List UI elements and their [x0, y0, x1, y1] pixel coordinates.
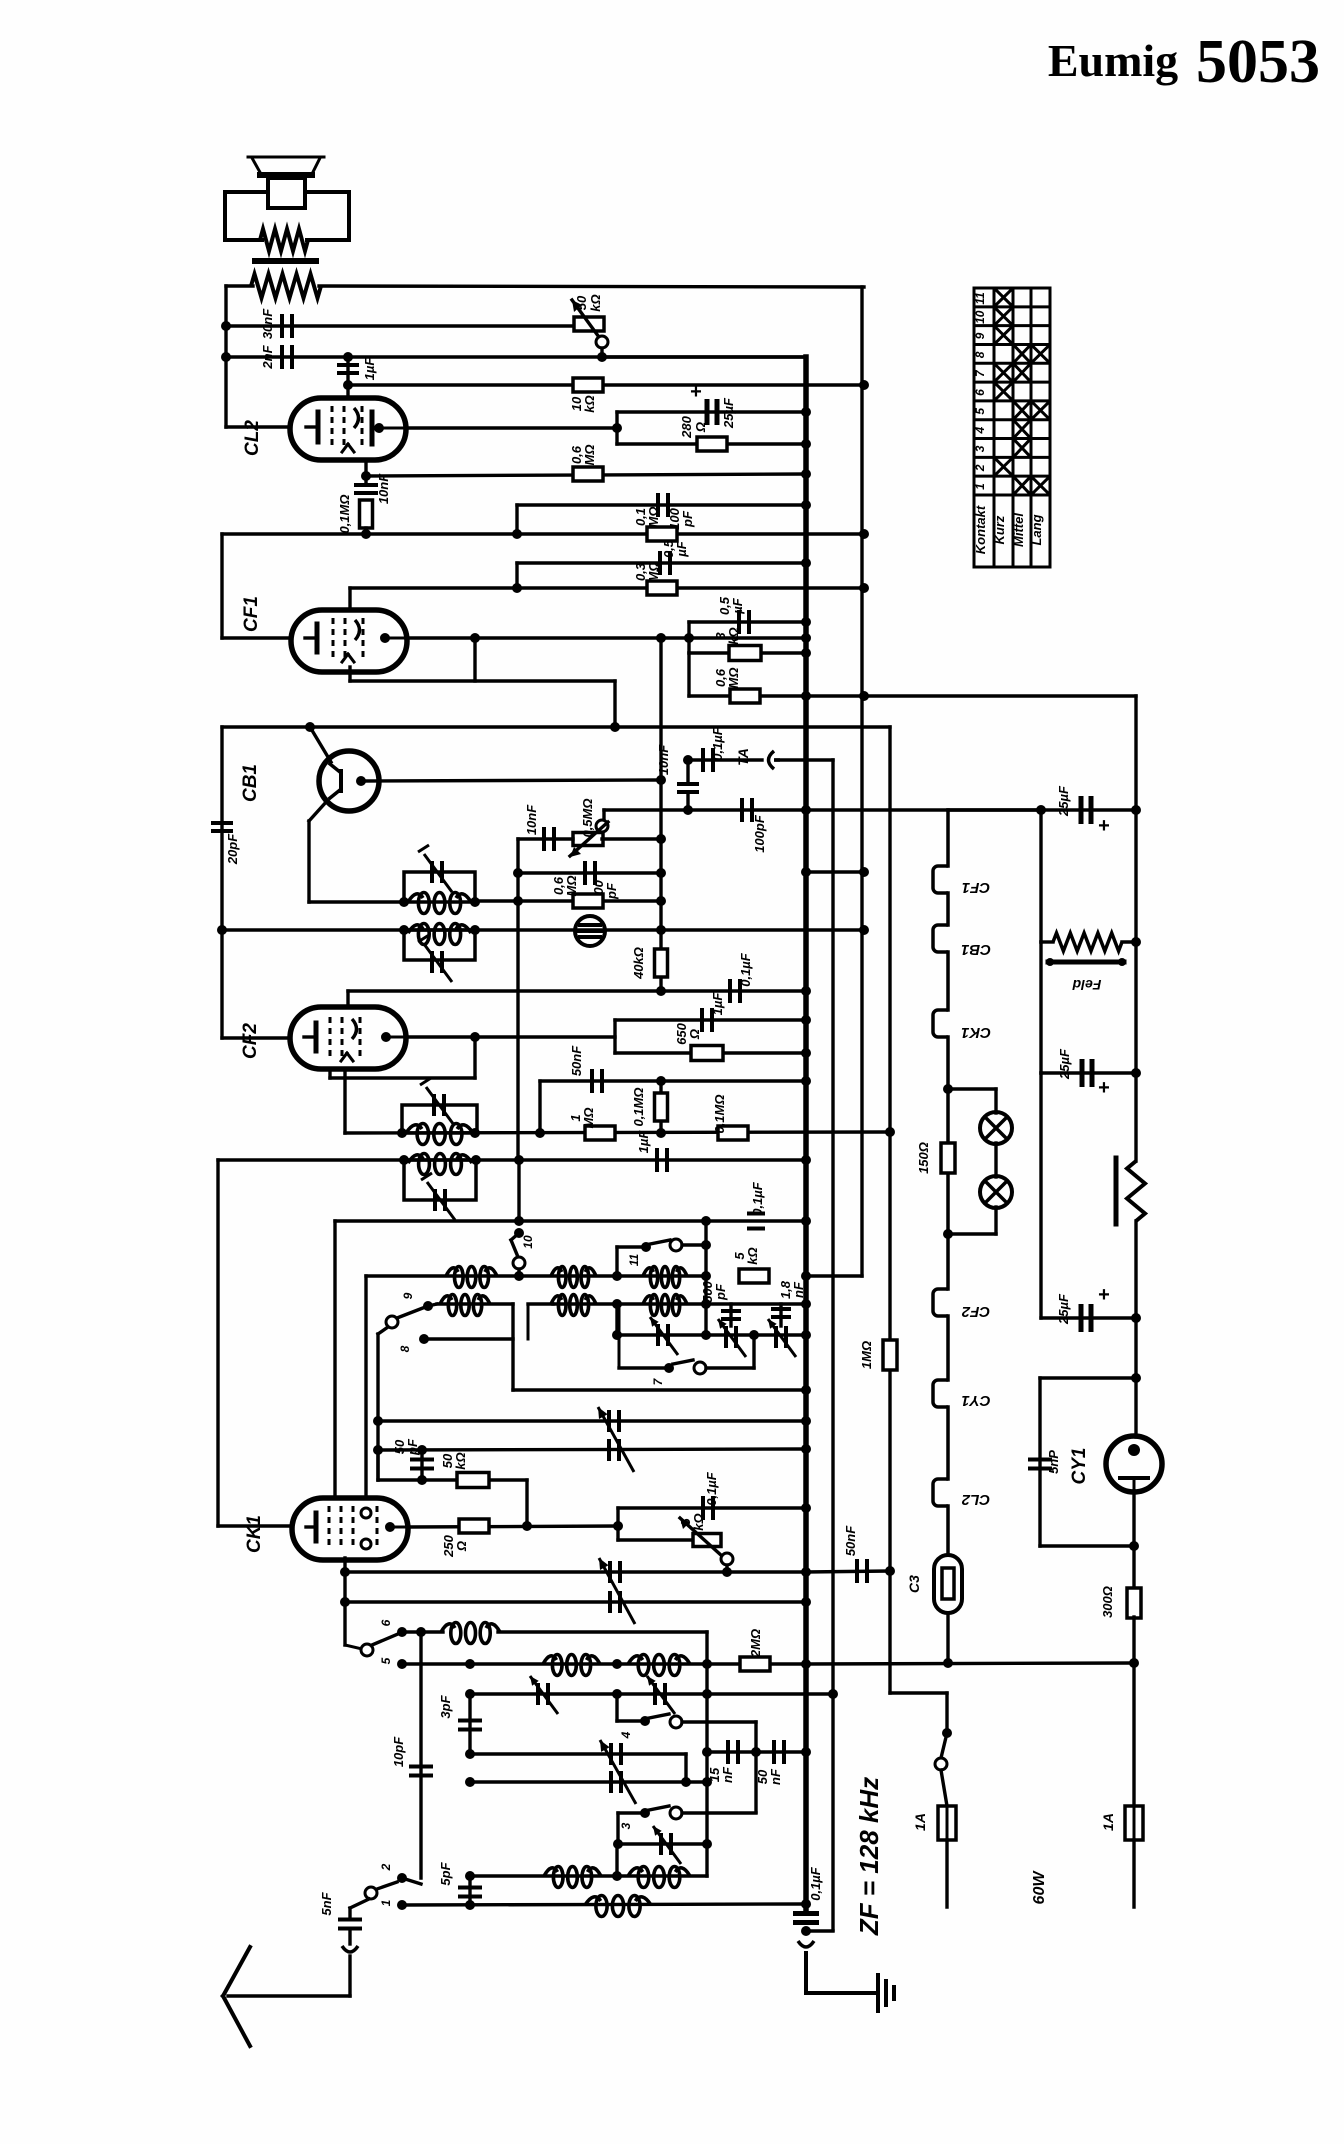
- wire gang3 line a: [470, 1752, 686, 1755]
- wire CF2 cath drop: [343, 1069, 346, 1133]
- svg-text:30nF: 30nF: [260, 308, 275, 339]
- label CB1: [240, 764, 261, 802]
- capacitor 0.5uF CF1 cath: [717, 596, 749, 634]
- resistor 300Ohm: [1100, 1586, 1141, 1618]
- svg-text:4: 4: [973, 426, 987, 434]
- node 50pF top: [417, 1445, 427, 1455]
- coil 1876 b: [628, 1867, 690, 1888]
- capacitor 30nF: [260, 308, 292, 339]
- svg-text:5: 5: [379, 1657, 393, 1664]
- tube CY1 internals: [1120, 1444, 1148, 1491]
- switch table: [974, 288, 1050, 567]
- svg-text:1: 1: [973, 483, 987, 490]
- node 40k bottom: [656, 986, 666, 996]
- varcap gang1 b: [609, 1439, 619, 1461]
- node IF1 prim right: [470, 897, 480, 907]
- node bus-280R: [801, 439, 811, 449]
- resistor 50kOhm: [440, 1452, 489, 1487]
- wire speaker secondary to rail: [226, 286, 864, 287]
- wire ant line 1694: [470, 1692, 833, 1695]
- wire to ground: [806, 1953, 874, 1993]
- coil osc row1 c: [643, 1267, 687, 1288]
- label CK1: [244, 1515, 265, 1553]
- svg-text:C3: C3: [906, 1575, 922, 1593]
- switch contact 4: [617, 1694, 756, 1812]
- svg-text:Lang: Lang: [1029, 514, 1044, 545]
- wire line1221: [335, 1221, 806, 1498]
- wire CF1 grid: [348, 588, 351, 610]
- svg-text:10pF: 10pF: [391, 1736, 406, 1767]
- capacitor 1uF coupling: [337, 357, 377, 398]
- wire 300 down: [1132, 1617, 1135, 1663]
- svg-text:µF: µF: [674, 540, 689, 557]
- svg-text:CK1: CK1: [244, 1515, 265, 1553]
- capacitor 5nF cy1: [1028, 1450, 1061, 1474]
- svg-text:CF2: CF2: [240, 1023, 261, 1059]
- svg-text:3: 3: [619, 1822, 633, 1829]
- capacitor 0.5uF CF1: [660, 539, 689, 575]
- node 10nF top: [683, 755, 693, 765]
- node bus-1uF650: [801, 1015, 811, 1025]
- IF2 primary box: [402, 1105, 477, 1133]
- node 1160 drop: [514, 1155, 524, 1165]
- wire 1M line: [345, 1132, 890, 1133]
- wire drop 519: [517, 1160, 520, 1221]
- resistor Feld: [1041, 933, 1136, 993]
- node 1663-707: [702, 1659, 712, 1669]
- node 1631-421: [416, 1627, 426, 1637]
- node rr 1073: [1131, 1068, 1141, 1078]
- svg-text:CB1: CB1: [240, 764, 261, 802]
- svg-text:ZF = 128 kHz: ZF = 128 kHz: [854, 1777, 884, 1936]
- svg-text:MΩ: MΩ: [726, 668, 741, 689]
- wire 5k bracket: [616, 1508, 619, 1540]
- svg-text:TA: TA: [735, 748, 751, 766]
- wire 2nF line: [226, 355, 806, 358]
- svg-text:Feld: Feld: [1072, 977, 1101, 993]
- wire gang3 line b: [470, 1780, 707, 1783]
- svg-text:3: 3: [973, 445, 987, 452]
- wire gang3 jog: [684, 1754, 687, 1782]
- wire lamp branch: [948, 1089, 996, 1234]
- IF2 primary trimmer: [420, 1078, 454, 1125]
- node bus 1449: [801, 1444, 811, 1454]
- title 5053: [1196, 28, 1320, 96]
- capacitor 0.1uF output: [793, 1866, 823, 1922]
- wire coil line 1876: [470, 1874, 707, 1877]
- node 10k-avc: [859, 380, 869, 390]
- IF1 primary trimmer: [418, 845, 452, 892]
- coil osc row2 a: [440, 1295, 490, 1316]
- tube CL2 internals: [306, 406, 406, 452]
- svg-text:0,5MΩ: 0,5MΩ: [580, 798, 595, 837]
- capacitor 5nF: [319, 1891, 362, 1944]
- tube CF1 envelope: [291, 610, 407, 672]
- svg-text:9: 9: [973, 332, 987, 339]
- node IF2 sec left: [399, 1155, 409, 1165]
- svg-text:2nF: 2nF: [260, 344, 275, 369]
- varcap gang2 b: [610, 1591, 620, 1613]
- trimmer ant c: [653, 1826, 681, 1864]
- svg-text:0,1MΩ: 0,1MΩ: [712, 1094, 727, 1133]
- svg-text:8: 8: [973, 351, 987, 358]
- wire 5nF box: [1040, 1378, 1136, 1546]
- node line1221-519: [514, 1216, 524, 1226]
- varcap gang3 a: [611, 1743, 621, 1765]
- node rr 810: [1131, 805, 1141, 815]
- wire CF1 plate line: [406, 636, 806, 639]
- title Eumig: [1048, 35, 1178, 86]
- coil 1663 a: [543, 1655, 600, 1676]
- svg-text:2: 2: [973, 464, 987, 472]
- capacitor 25uF a: [1056, 785, 1110, 837]
- switch table labels: [973, 505, 1044, 554]
- trimmer padder b: [718, 1319, 746, 1357]
- fuse C3: [906, 1555, 962, 1613]
- wire CL2 cathode line: [366, 462, 806, 476]
- wire IF2 sec line: [218, 1158, 806, 1161]
- svg-text:10nF: 10nF: [656, 744, 671, 775]
- tube CF2 envelope: [290, 1007, 406, 1069]
- svg-text:10: 10: [973, 310, 987, 324]
- label CY1: [1069, 1448, 1090, 1485]
- rail CK1 left: [216, 1160, 219, 1526]
- label heater CF1: [962, 879, 990, 896]
- tube CB1 envelope: [319, 751, 379, 811]
- node bus 1304: [801, 1299, 811, 1309]
- tube CK1 envelope: [292, 1498, 408, 1560]
- coil osc row2 c: [643, 1295, 687, 1316]
- svg-text:2MΩ: 2MΩ: [748, 1629, 763, 1658]
- resistor 0.1MOhm v CF2: [631, 1081, 668, 1133]
- svg-text:9: 9: [401, 1292, 415, 1299]
- wire CF2 grid line: [348, 991, 806, 1007]
- fuse 1A left: [912, 1806, 956, 1840]
- node 706-sw11: [701, 1240, 711, 1250]
- wire 50nF line: [540, 1081, 806, 1133]
- node 1844-707: [702, 1839, 712, 1849]
- IF1 secondary box: [404, 930, 475, 960]
- wire feld drop: [1039, 810, 1042, 942]
- rail CF1 left: [220, 534, 223, 638]
- svg-text:11: 11: [627, 1253, 641, 1266]
- svg-text:CY1: CY1: [961, 1392, 990, 1409]
- wire line 1905: [402, 1904, 806, 1905]
- wire 0.1uF 1508: [618, 1506, 806, 1509]
- node 1694-617: [612, 1689, 622, 1699]
- node bus 810: [801, 805, 811, 815]
- label heater CY1: [961, 1392, 990, 1409]
- wire CY1 down: [1132, 1491, 1135, 1589]
- node 1M-a: [535, 1128, 545, 1138]
- svg-text:1A: 1A: [912, 1813, 928, 1831]
- node bus 1508: [801, 1503, 811, 1513]
- wire 280R branch: [617, 442, 806, 445]
- coil 1905: [585, 1896, 651, 1917]
- node CF1 plate bus: [801, 633, 811, 643]
- capacitor 0.1uF 1508: [703, 1471, 719, 1520]
- switch table marks: [973, 290, 1048, 493]
- resistor 280Ohm: [679, 415, 727, 451]
- node plate drop top: [656, 633, 666, 643]
- svg-text:kΩ: kΩ: [582, 395, 597, 412]
- node bus-100pF: [801, 500, 811, 510]
- tube CL2 envelope: [290, 398, 406, 460]
- svg-text:5nP: 5nP: [1046, 1450, 1061, 1474]
- wire line810: [604, 808, 1136, 811]
- potentiometer 50kOhm: [572, 294, 604, 344]
- wire 1663 right: [806, 1663, 1134, 1664]
- wire riser 707: [705, 1632, 708, 1876]
- wire CB1 anode line: [361, 780, 661, 781]
- node 1Mline-890: [885, 1127, 895, 1137]
- resistor 250Ohm: [441, 1519, 489, 1558]
- svg-text:pF: pF: [604, 882, 619, 900]
- label 5 terminal: [379, 1657, 407, 1669]
- node bus 1572: [801, 1567, 811, 1577]
- IF1 secondary coil: [408, 924, 471, 945]
- node CL2 plate bracket: [612, 423, 622, 433]
- node bus-screen: [801, 691, 811, 701]
- tube CK1 internals: [306, 1506, 408, 1550]
- wire trim line 1844: [618, 1842, 707, 1845]
- resistor 0.1MOhm h: [633, 507, 677, 541]
- node 1694-707: [702, 1689, 712, 1699]
- IF2 secondary box: [404, 1160, 476, 1200]
- wire mains right: [1132, 1663, 1135, 1806]
- capacitor 10nF det: [656, 744, 699, 810]
- node 1782-470: [465, 1777, 475, 1787]
- wire 0.5uF branch CF1: [689, 620, 806, 623]
- wire CK1 left pin: [218, 1524, 292, 1527]
- svg-text:CF1: CF1: [962, 879, 990, 896]
- capacitor 25uF cathode: [690, 381, 736, 429]
- node row1-706: [701, 1271, 711, 1281]
- wire agc vertical: [516, 839, 519, 1160]
- node rail-30nF: [221, 321, 231, 331]
- wire antenna lead: [228, 1956, 350, 1996]
- node 0.1M to line: [361, 529, 371, 539]
- shield symbol: [575, 916, 605, 946]
- node 890-50nF: [885, 1566, 895, 1576]
- node bus-cf2grid: [801, 986, 811, 996]
- node wiper junction: [597, 352, 607, 362]
- node 50k-250: [522, 1521, 532, 1531]
- svg-text:3pF: 3pF: [438, 1694, 453, 1718]
- svg-text:40kΩ: 40kΩ: [631, 947, 646, 980]
- svg-text:Kurz: Kurz: [992, 515, 1007, 544]
- node gang2 left a: [340, 1567, 350, 1577]
- wire heater top: [864, 696, 1136, 810]
- capacitor 10nF CL2: [354, 473, 391, 504]
- svg-text:10nF: 10nF: [524, 804, 539, 835]
- node 1663-470: [465, 1659, 475, 1669]
- capacitor 20pF: [211, 823, 240, 865]
- label CF2: [240, 1023, 261, 1059]
- svg-text:1µF: 1µF: [710, 992, 725, 1016]
- resistor 0.3MOhm: [633, 562, 677, 595]
- node bus 1421: [801, 1416, 811, 1426]
- node heater lamp bottom: [943, 1229, 953, 1239]
- svg-text:1µF: 1µF: [636, 1130, 651, 1154]
- svg-text:Ω: Ω: [693, 422, 708, 433]
- node CF2 plate: [470, 1032, 480, 1042]
- node rr 1378: [1131, 1373, 1141, 1383]
- capacitor 0.1uF CF2: [730, 952, 753, 1003]
- trimmer ant a: [530, 1676, 558, 1714]
- svg-text:pF: pF: [680, 510, 695, 528]
- wire mains switch line: [890, 727, 947, 1733]
- node agc-0.6M: [513, 896, 523, 906]
- node 40k top: [656, 925, 666, 935]
- node bus 1663: [801, 1659, 811, 1669]
- wire CF2 fb loop: [330, 1037, 475, 1078]
- node 1663-617: [612, 1659, 622, 1669]
- wire line1390: [513, 1388, 806, 1391]
- wire 25uF c drop: [1039, 1073, 1042, 1318]
- antenna symbol: [223, 1947, 250, 2046]
- node IF1 prim left: [399, 897, 409, 907]
- trimmer ant b: [647, 1676, 675, 1714]
- resistor 5kOhm osc: [732, 1247, 769, 1283]
- node bus 1221: [801, 1216, 811, 1226]
- fuse 1A right: [1100, 1806, 1143, 1840]
- IF1 secondary trimmer: [418, 935, 452, 982]
- varcap gang1 a: [609, 1410, 619, 1432]
- wire 25uF branch: [617, 410, 806, 413]
- node bus-650: [801, 1048, 811, 1058]
- svg-text:Ω: Ω: [454, 1541, 469, 1552]
- switch contact 11: [617, 1239, 706, 1276]
- switch contact 8: [398, 1334, 513, 1352]
- node feld right: [1131, 937, 1141, 947]
- tube CY1 envelope: [1106, 1436, 1162, 1492]
- IF2 primary coil: [406, 1124, 473, 1145]
- svg-text:11: 11: [973, 292, 987, 305]
- node rr 1546: [1129, 1541, 1139, 1551]
- wire bus top: [602, 355, 806, 358]
- heater chain wire: [933, 810, 948, 1555]
- node det bracket top: [656, 834, 666, 844]
- node 10nF bottom: [683, 805, 693, 815]
- capacitor 10pF: [391, 1632, 433, 1878]
- wire IF1 sec line: [222, 928, 864, 931]
- svg-text:nF: nF: [720, 1766, 735, 1783]
- resistor 650Ohm: [674, 1022, 723, 1060]
- svg-text:0,1µF: 0,1µF: [704, 1471, 719, 1506]
- label heater CK1: [961, 1024, 991, 1041]
- node 5k bracket: [613, 1521, 623, 1531]
- resistor 0.6MOhm det: [551, 876, 603, 908]
- svg-text:kΩ: kΩ: [726, 627, 741, 644]
- capacitor 50nF CF2: [569, 1045, 602, 1093]
- node avc-screen: [859, 691, 869, 701]
- wire CF1 left pin: [222, 636, 291, 639]
- svg-text:CL2: CL2: [242, 420, 263, 456]
- node heater lamp top: [943, 1084, 953, 1094]
- capacitor 10nF agc: [518, 804, 573, 851]
- wire riser 617: [615, 1304, 618, 1335]
- capacitor 25uF c: [1056, 1284, 1110, 1332]
- resistor 40kOhm: [631, 930, 668, 991]
- wire 25uF b line: [1041, 1071, 1136, 1074]
- node feld top: [1036, 805, 1046, 815]
- wire 25uF a stub: [948, 808, 1041, 811]
- resistor 0.6MOhm CF1: [713, 668, 760, 703]
- node 1752-756: [751, 1747, 761, 1757]
- wire 0.3M line: [350, 586, 864, 589]
- wire CL2 plate line: [406, 426, 617, 429]
- node bus-halfuF: [801, 558, 811, 568]
- svg-text:5nF: 5nF: [319, 1891, 334, 1915]
- svg-text:Eumig: Eumig: [1048, 35, 1178, 86]
- wire 30nF line: [226, 324, 575, 327]
- pot 0.5MOhm: [570, 798, 608, 857]
- wire vert 706: [704, 1221, 707, 1335]
- node grid line junction: [512, 529, 522, 539]
- wire CF1 cathode loop: [350, 638, 615, 727]
- trimmer padder a: [650, 1317, 678, 1355]
- wire pot out: [602, 837, 661, 840]
- wire wiper link: [602, 810, 605, 820]
- node padder-617: [612, 1330, 622, 1340]
- capacitor 0.1uF 1221: [747, 1181, 765, 1228]
- node c3 join: [943, 1658, 953, 1668]
- node 1782-686: [681, 1777, 691, 1787]
- varcap gang2 a: [610, 1561, 620, 1583]
- pot 50k wiper: [596, 336, 608, 357]
- node right rail 1663: [1129, 1658, 1139, 1668]
- svg-text:kΩ: kΩ: [453, 1452, 468, 1469]
- IF2 secondary coil: [408, 1154, 472, 1175]
- wire CK1 plate line: [408, 1526, 618, 1527]
- resistor 2MOhm: [740, 1629, 770, 1671]
- switch contact 7: [619, 1304, 754, 1385]
- switch contact 3: [618, 1806, 756, 1844]
- node bus 1602: [801, 1597, 811, 1607]
- coil osc row1 b: [551, 1267, 596, 1288]
- svg-text:300Ω: 300Ω: [1100, 1586, 1115, 1618]
- wire gang1 line b: [378, 1449, 806, 1450]
- resistor 1MOhm CF2: [568, 1108, 615, 1140]
- wire mains right end: [1132, 1840, 1135, 1907]
- wire CF1 plate drop: [659, 638, 662, 930]
- node 200pF right: [656, 868, 666, 878]
- wire 0.6M screen line: [689, 653, 864, 696]
- node 2nF-1uF: [343, 352, 353, 362]
- rail CL2 left: [224, 286, 227, 427]
- label ZF: [854, 1777, 884, 1936]
- node row2-706: [701, 1299, 711, 1309]
- svg-text:MΩ: MΩ: [581, 1108, 596, 1129]
- wire gang2 line b: [345, 1600, 806, 1603]
- node bus 1904: [801, 1899, 811, 1909]
- wire CL2 left pin: [226, 425, 290, 428]
- jack antenna: [342, 1946, 358, 1952]
- node det601: [656, 896, 666, 906]
- wire 0.6M det line: [475, 899, 661, 902]
- node bus-25uF: [801, 407, 811, 417]
- node 1876-470: [465, 1871, 475, 1881]
- svg-text:+: +: [1098, 1077, 1110, 1099]
- wire mains left end: [945, 1840, 948, 1907]
- coil osc row2 b: [551, 1295, 596, 1316]
- resistor 10kOhm line: [348, 383, 864, 386]
- node IF1 sec left: [399, 925, 409, 935]
- label 60W: [1031, 1870, 1048, 1905]
- wire 833 end: [806, 1929, 833, 1932]
- resistor 0.1MOhm CL2: [337, 494, 373, 534]
